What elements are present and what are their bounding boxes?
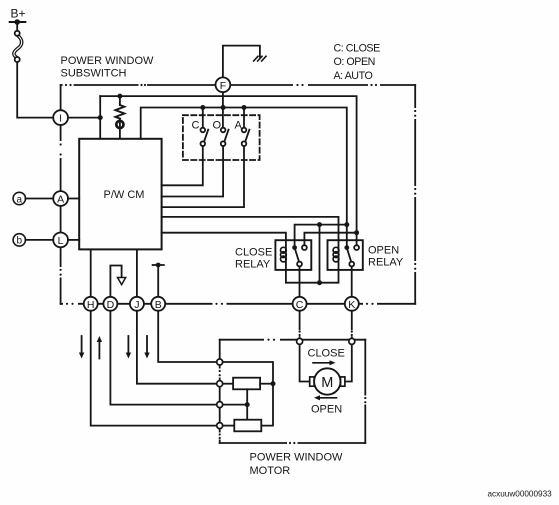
wire C to motor — [298, 311, 301, 339]
fusible link FL — [14, 31, 22, 62]
svg-text:K: K — [348, 299, 355, 311]
svg-text:OPEN: OPEN — [311, 404, 342, 416]
svg-text:P/W CM: P/W CM — [104, 189, 145, 201]
terminal H — [84, 297, 98, 311]
terminal L — [53, 233, 68, 248]
svg-text:MOTOR: MOTOR — [250, 465, 291, 477]
wire CM to terminal H — [90, 249, 92, 296]
svg-text:A: A — [57, 194, 64, 206]
ground lead from terminal F — [223, 46, 260, 78]
terminal D — [103, 297, 117, 311]
P/W CM module box — [79, 139, 161, 250]
junction dot open pivot — [344, 222, 349, 227]
svg-text:A: AUTO: A: AUTO — [334, 70, 373, 82]
center tap wire R1 to R2 — [246, 389, 248, 419]
svg-text:RELAY: RELAY — [368, 256, 404, 268]
wire t2 to resistor R1 — [223, 383, 233, 385]
legend — [334, 43, 381, 82]
subswitch box bottom edge (terminal bus) — [61, 302, 416, 305]
svg-text:D: D — [107, 299, 115, 311]
svg-text:C: CLOSE: C: CLOSE — [334, 43, 381, 55]
svg-text:C: C — [192, 120, 200, 132]
wire t4 to resistor R2 — [223, 425, 235, 427]
ground symbol — [254, 56, 266, 61]
svg-text:F: F — [220, 80, 226, 92]
motor connector terminal t2 — [217, 381, 223, 387]
junction dot coil return — [317, 280, 322, 285]
wire L to CM — [68, 239, 79, 241]
svg-text:B: B — [155, 299, 162, 311]
svg-text:J: J — [134, 299, 139, 311]
svg-text:a: a — [17, 194, 23, 205]
svg-text:B+: B+ — [11, 7, 26, 21]
label POWER WINDOW SUBSWITCH — [61, 55, 154, 80]
svg-text:M: M — [321, 375, 333, 391]
junction dot NO rail — [354, 230, 359, 235]
wire close NO contact to open NO rail — [304, 233, 356, 248]
motor box top edge — [220, 338, 366, 341]
open relay coil — [333, 240, 339, 270]
motor box bottom edge — [220, 441, 366, 444]
close relay switch — [292, 240, 307, 297]
svg-text:H: H — [87, 299, 95, 311]
switch common line y=107.5 from CM top to right, down to relay pivots — [141, 108, 347, 246]
svg-text:b: b — [17, 236, 23, 247]
node a — [13, 192, 53, 205]
wire J to motor terminal 2 — [137, 311, 217, 384]
wire: terminal I to junction, and junction up to battery rail — [68, 117, 100, 119]
wire K to motor — [350, 311, 353, 339]
terminal F drop wire to switch O — [222, 92, 224, 127]
wire R1 right to rail — [260, 383, 273, 385]
switch A — [162, 108, 250, 208]
terminal B — [151, 297, 165, 311]
junction dot rail/R1 — [271, 381, 276, 386]
close relay coil — [281, 240, 287, 270]
page-arrow symbol above terminal D — [110, 266, 125, 297]
terminal I — [53, 110, 68, 125]
svg-text:CLOSE: CLOSE — [235, 247, 272, 259]
terminal K — [345, 297, 359, 311]
close relay box — [275, 240, 311, 270]
svg-text:I: I — [59, 113, 62, 125]
motor M1 — [314, 368, 340, 394]
wire CM to terminal J — [136, 249, 138, 296]
svg-text:CLOSE: CLOSE — [308, 348, 345, 360]
battery rail wire y=96 across to right corner down to relay contacts — [100, 96, 356, 245]
terminal C — [293, 297, 307, 311]
terminal J — [130, 297, 144, 311]
svg-text:acxuuw00000933: acxuuw00000933 — [488, 490, 553, 499]
current arrows — [79, 336, 150, 359]
node b — [13, 234, 53, 247]
terminal F — [216, 77, 231, 92]
bridge wire pivots to coil-return — [319, 225, 321, 283]
label OPEN with arrow — [311, 395, 342, 415]
motor connector terminal t5 (top C) — [297, 338, 303, 344]
wire B+ feed down to corner and right to terminal I — [17, 62, 53, 118]
junction dot pivot line — [317, 222, 322, 227]
resistor R (vertical zigzag) — [115, 96, 124, 119]
wire D to motor terminal 3 — [110, 311, 216, 405]
subswitch box left edge — [59, 85, 62, 304]
svg-text:C: C — [296, 299, 304, 311]
motor box left edge — [218, 340, 221, 443]
wire H to motor terminal 4 — [91, 311, 217, 426]
junction dot switch C — [200, 105, 205, 110]
motor connector terminal t3 — [217, 402, 223, 408]
junction dot resistor tap — [117, 94, 122, 99]
wire CM to close relay coil — [162, 233, 286, 248]
motor M1 brushes — [310, 377, 315, 386]
switch C — [162, 108, 209, 186]
open relay box — [328, 240, 363, 270]
svg-text:O: O — [213, 120, 222, 132]
connector circle on resistor leg — [116, 119, 123, 139]
svg-text:RELAY: RELAY — [235, 258, 271, 270]
junction dot at I wire — [98, 115, 103, 120]
svg-text:O: OPEN: O: OPEN — [334, 56, 375, 68]
resistor R1 — [233, 378, 260, 390]
B+ terminal — [10, 7, 26, 30]
label CLOSE with arrow — [308, 348, 345, 366]
svg-text:A: A — [235, 120, 243, 132]
motor connector terminal t6 (top K) — [349, 338, 355, 344]
terminal A — [53, 191, 68, 206]
label POWER WINDOW MOTOR — [250, 452, 343, 478]
svg-text:OPEN: OPEN — [368, 244, 399, 256]
branch symbol above terminal B — [153, 263, 164, 297]
motor connector terminal t1 — [217, 359, 223, 365]
svg-text:SUBSWITCH: SUBSWITCH — [61, 68, 127, 80]
svg-text:L: L — [58, 235, 64, 247]
svg-text:POWER WINDOW: POWER WINDOW — [250, 452, 343, 464]
junction dot switch A — [242, 105, 247, 110]
wire B to motor terminal 1 — [158, 311, 216, 362]
svg-text:POWER WINDOW: POWER WINDOW — [61, 55, 154, 67]
switch O — [162, 128, 229, 197]
motor box right edge — [364, 340, 367, 443]
wire t1 to resistor right rail — [223, 362, 273, 426]
junction dot center tap — [245, 402, 250, 407]
wire A to CM — [68, 198, 79, 200]
motor M1 wiring right — [345, 345, 352, 382]
motor connector terminal t4 — [217, 423, 223, 429]
subswitch box right edge — [414, 85, 417, 304]
resistor R2 — [234, 420, 261, 432]
open relay switch — [344, 240, 359, 297]
wire t3 to center tap — [223, 404, 247, 406]
junction dot switch O — [221, 105, 226, 110]
motor M1 wiring left — [300, 345, 310, 382]
subswitch box top edge — [61, 84, 416, 87]
dashed switch box — [183, 115, 260, 160]
coil return wire below relays — [286, 270, 339, 283]
wire CM to open relay coil — [162, 217, 339, 248]
wire close relay pivot to switch-common vertical — [295, 225, 347, 248]
